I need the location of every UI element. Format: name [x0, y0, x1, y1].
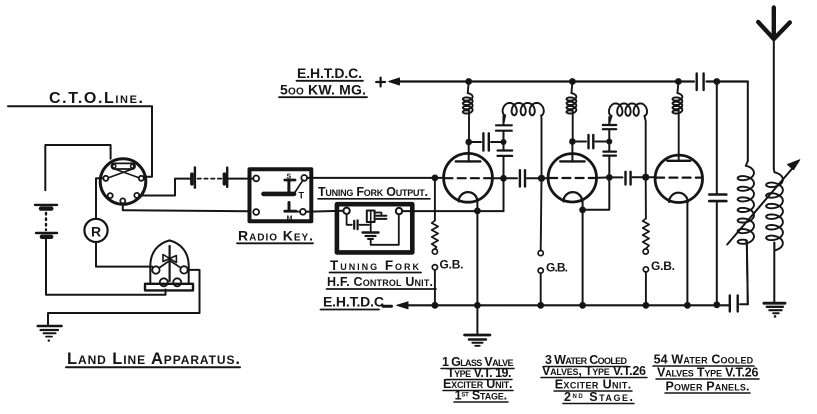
capacitor tank 2 lower plate b — [603, 155, 616, 157]
svg-text:E.H.T.D.C: E.H.T.D.C — [323, 294, 384, 310]
capacitor tank 1 upper plate b — [496, 130, 512, 132]
terminal grid bias 1 upper — [432, 249, 437, 254]
wire grid bias 3 to bus — [645, 272, 647, 305]
radio key lower bar to bottom-right terminal — [296, 211, 300, 213]
node tank 2 output — [606, 174, 613, 181]
wire fork to internal ground — [370, 222, 372, 232]
node bus valve 1 filament — [474, 302, 481, 309]
wire tank 2 left vertical — [608, 117, 610, 177]
capacitor fork unit plate a — [353, 221, 355, 229]
wire line capacitor to radio key — [229, 178, 253, 180]
rotary terminal left — [103, 176, 108, 181]
tuning fork unit box — [337, 204, 412, 252]
rotary terminal bottom-center — [120, 198, 125, 203]
ground left dot — [48, 339, 50, 341]
underline E.H.T.D.C top — [297, 80, 364, 82]
rotary capsule pivot right — [131, 165, 134, 168]
node bus grid bias 2 — [537, 302, 544, 309]
underline EXCITER UNIT 1 — [443, 390, 513, 392]
node valve 3 grid — [642, 174, 649, 181]
wire radio key lower to tuning fork input — [306, 211, 344, 212]
wire main earth stem — [476, 305, 478, 333]
inductor tank coil stage 1 — [503, 103, 544, 178]
tuning fork terminal right — [396, 208, 402, 214]
rotary crossed contact arm 1 — [114, 169, 139, 178]
capacitor output tank plate a — [709, 193, 726, 196]
battery B1 bottom cell long plate — [36, 232, 57, 234]
node tank 1 feed — [501, 139, 507, 145]
tuning fork terminal left — [343, 208, 349, 214]
valve V2 envelope — [548, 154, 596, 202]
ground antenna dot — [774, 315, 777, 318]
svg-text:C.T.O.Line.: C.T.O.Line. — [49, 90, 143, 107]
capacitor grid-anode stage 1 lead — [469, 141, 481, 143]
capacitor coupling stage 2-3 right lead — [633, 176, 646, 178]
wire R meter to sounder left terminal — [96, 242, 152, 267]
radio key lever link to top-right terminal — [295, 180, 304, 193]
wire dashed link between line capacitors — [198, 178, 222, 180]
node tank 2 feed — [606, 139, 612, 145]
valve V2 filament dome — [563, 192, 582, 202]
resistor grid leak stage 1 — [432, 221, 438, 249]
wire valve 2 grid lead right — [596, 176, 609, 179]
valve V3 grid dashed — [656, 177, 701, 179]
underline 1ST STAGE — [454, 401, 508, 403]
svg-text:Valves, Type V.T.26: Valves, Type V.T.26 — [542, 364, 646, 378]
sounder bell body — [150, 240, 188, 283]
svg-text:T: T — [299, 191, 305, 201]
wire tank capacitor branch upper — [716, 82, 718, 195]
capacitor tank 2 upper plate b — [603, 128, 616, 130]
underline 1 GLASS VALVE — [441, 368, 514, 370]
capacitor anode stage 2 plate b — [592, 135, 594, 148]
wire C.T.O. line drop to rotary — [144, 106, 152, 177]
wire tank 2 return to filament — [583, 177, 610, 209]
meter R body — [84, 219, 107, 242]
wire capacitor to fork — [360, 224, 370, 226]
valve V1 grid dashed — [445, 177, 492, 179]
rotary armature capsule — [112, 163, 136, 169]
node bus grid bias 3 — [643, 302, 650, 309]
capacitor coupling stage 2-3 left lead — [609, 176, 622, 178]
capacitor line cap left thick plate — [190, 174, 194, 184]
inductor anode choke stage 3 — [673, 82, 683, 161]
wire tank capacitor branch lower — [716, 202, 718, 305]
capacitor anode stage 1 plate b — [488, 133, 490, 150]
wire antenna coil to ground — [773, 243, 775, 303]
node bus valve 3 filament — [684, 302, 691, 309]
node top bus stage 3 — [675, 78, 682, 85]
underline POWER PANELS — [665, 392, 750, 394]
rotary terminal right — [139, 176, 144, 181]
rotary terminal bottom-left — [108, 193, 113, 198]
valve V3 filament dome — [669, 193, 688, 202]
capacitor bus series plate a — [737, 295, 739, 311]
capacitor coupling stage 1-2 plate a — [519, 170, 521, 186]
capacitor top bus series plate a — [696, 74, 698, 91]
capacitor fork unit plate b — [357, 220, 359, 229]
svg-text:H.F. Control Unit.: H.F. Control Unit. — [327, 275, 433, 289]
battery B1 top cell long plate — [35, 204, 57, 206]
minus polarity dash — [383, 305, 392, 308]
ground left bar 2 — [41, 329, 59, 331]
wire valve 2 filament stem — [582, 202, 584, 306]
radio key lever — [264, 192, 295, 197]
underline LAND LINE APPARATUS — [66, 366, 240, 368]
wire grid bias 2 drop — [540, 178, 543, 250]
wire grid leak 1 drop — [434, 178, 436, 221]
sounder stem — [169, 246, 171, 281]
underline RADIO KEY — [237, 242, 313, 244]
ground main bar 2 — [469, 338, 486, 340]
rotary crossed contact arm 2 — [109, 169, 134, 178]
wire tuning fork output line — [402, 210, 503, 212]
svg-text:Tuning Fork: Tuning Fork — [330, 258, 420, 273]
wire grid bias 2 to bus — [540, 273, 542, 305]
capacitor line cap right tall plate — [226, 168, 228, 187]
svg-text:Valves Type V.T.26: Valves Type V.T.26 — [657, 366, 759, 380]
wire rotary bottom-center to key lower line — [123, 203, 249, 211]
inductor anode choke stage 1 — [463, 82, 473, 143]
terminal grid bias 3 lower — [643, 267, 648, 272]
ground antenna bar 1 — [764, 302, 785, 305]
terminal grid bias 2 upper — [538, 251, 543, 256]
wire top E.H.T. bus left of capacitor — [398, 80, 694, 82]
capacitor anode stage 2 lead — [572, 141, 586, 143]
wire fork unit internal return — [371, 215, 399, 245]
wire battery to sounder base — [46, 239, 166, 295]
terminal grid bias 3 upper — [643, 249, 648, 254]
wire sounder right terminal down to return line — [188, 270, 200, 313]
node bus grid bias 1 — [432, 302, 439, 309]
rotary capsule pivot left — [113, 165, 116, 168]
ground antenna bar 4 — [773, 312, 779, 314]
node valve 1 grid leak branch — [432, 175, 439, 182]
capacitor line cap left tall plate — [194, 167, 196, 187]
capacitor tank 1 lower plate b — [498, 155, 513, 157]
radio key terminal bottom-left — [253, 209, 259, 215]
underline TUNING FORK OUTPUT — [318, 198, 430, 200]
node valve 2 anode branch — [569, 138, 576, 145]
svg-text:G.B.: G.B. — [546, 261, 568, 275]
capacitor anode stage 1 right lead — [491, 141, 504, 143]
underline VALVES TYPE VT26 — [541, 377, 647, 379]
wire fork terminal to capacitor — [347, 214, 352, 225]
terminal grid bias 2 lower — [538, 268, 543, 273]
capacitor line cap right thick plate — [223, 174, 227, 184]
svg-text:Tuning Fork Output.: Tuning Fork Output. — [318, 185, 428, 199]
node tank 1 output — [500, 175, 507, 182]
wire battery feed from rotary top — [45, 145, 110, 190]
svg-text:Radio Key.: Radio Key. — [238, 228, 313, 244]
radio key upper contact stem — [287, 181, 290, 192]
svg-text:E.H.T.D.C.: E.H.T.D.C. — [297, 65, 362, 81]
wire bottom E.H.T. bus — [407, 304, 730, 306]
wire grid bias 1 to bus — [434, 270, 436, 305]
capacitor top bus series plate b — [702, 74, 704, 91]
wire output coil bottom to bus capacitor — [740, 241, 748, 305]
ground fork unit bar 2 — [366, 235, 376, 237]
valve V2 grid dashed — [549, 177, 595, 179]
wire C.T.O. line horizontal — [8, 105, 152, 107]
ground main bar 3 — [472, 342, 482, 344]
ground fork unit bar 3 — [368, 238, 373, 240]
underline E.H.T.D.C bottom — [321, 309, 380, 311]
underline 500 KW MG — [279, 96, 367, 98]
wire earth return line — [48, 313, 200, 325]
underline H.F. CONTROL UNIT — [327, 288, 437, 290]
ground left bar 4 — [46, 336, 52, 338]
node bus tank capacitor — [713, 301, 720, 308]
ground left bar 3 — [44, 332, 56, 334]
radio key upper contact bar S — [285, 179, 295, 182]
bottom E.H.T. bus arrowhead — [397, 302, 408, 309]
rotary terminal bottom-right — [134, 193, 139, 198]
wire valve 3 grid lead left — [646, 176, 656, 178]
valve V1 filament dome — [459, 192, 478, 202]
wire antenna lead — [773, 39, 775, 169]
underline VALVES TYPE VT26 POWER — [656, 378, 759, 380]
radio key terminal top-left — [253, 176, 259, 182]
wire fork cap lead — [375, 213, 382, 216]
capacitor tank 2 upper plate a — [603, 124, 616, 126]
inductor tank coil stage 2 — [609, 103, 647, 177]
wire rotary bottom-right to line capacitor — [139, 179, 190, 196]
wire valve 2 grid lead left — [542, 177, 550, 179]
capacitor coupling stage 1-2 right lead — [527, 177, 542, 179]
ground antenna bar 2 — [767, 306, 783, 308]
svg-text:G.B.: G.B. — [440, 258, 464, 272]
inductor antenna coil — [766, 169, 783, 250]
sounder arm left — [159, 261, 170, 269]
capacitor anode stage 2 plate a — [587, 135, 589, 148]
capacitor coupling stage 1-2 plate b — [524, 170, 526, 186]
svg-text:S: S — [286, 174, 291, 181]
wire top E.H.T. bus right of capacitor — [707, 80, 748, 82]
svg-text:2nd Stage.: 2nd Stage. — [564, 390, 633, 404]
wire choke to valve 1 anode — [468, 142, 470, 161]
wire radio key to valve 1 grid line — [307, 177, 435, 179]
ground fork unit bar 1 — [363, 231, 379, 233]
capacitor coupling stage 1-2 left lead — [504, 177, 518, 179]
wire rotary left terminal to R meter — [96, 178, 103, 219]
wire valve 3 filament stem — [686, 202, 688, 305]
capacitor tank 1 upper plate a — [496, 124, 512, 126]
ground main bar 1 — [465, 334, 490, 337]
capacitor bus series plate b — [729, 295, 731, 311]
radio key terminal top-right — [301, 175, 307, 181]
capacitor fork unit top plate a — [376, 215, 386, 217]
node valve 2 grid — [538, 175, 545, 182]
wire choke to valve 2 anode — [571, 142, 573, 162]
valve V1 envelope — [444, 153, 493, 202]
svg-text:R: R — [91, 224, 101, 240]
radio key terminal bottom-right — [300, 209, 306, 215]
valve V3 anode bar — [667, 160, 690, 162]
underline TYPE V.T. 19 — [446, 379, 512, 381]
sounder terminal left — [152, 266, 159, 273]
svg-text:Power Panels.: Power Panels. — [666, 380, 750, 394]
top E.H.T. bus arrowhead — [389, 78, 400, 85]
wire top bus corner to output coil — [747, 82, 749, 162]
sounder arm right — [170, 261, 181, 268]
capacitor output tank plate b — [709, 200, 726, 203]
underline TUNING FORK — [330, 272, 422, 274]
svg-text:5oo KW. MG.: 5oo KW. MG. — [280, 82, 366, 98]
node bus valve 2 filament — [579, 302, 586, 309]
sounder contact a — [160, 278, 168, 286]
underline 2ND STAGE — [563, 403, 634, 405]
underline 54 WATER COOLED — [653, 365, 754, 367]
sounder vane right — [170, 256, 177, 263]
svg-text:G.B.: G.B. — [651, 259, 675, 273]
radio key lower contact stem — [288, 203, 291, 211]
arrowhead variometer — [788, 160, 800, 170]
plus polarity mark — [376, 78, 385, 87]
wire grid leak 3 drop — [645, 177, 647, 218]
inductor output coil — [738, 161, 754, 304]
radio key lower contact bar M — [285, 210, 296, 213]
inductor anode choke stage 2 — [567, 82, 577, 142]
svg-text:54 Water Cooled: 54 Water Cooled — [654, 353, 754, 367]
node valve 1 filament junction — [474, 208, 481, 215]
node valve 1 anode branch — [465, 139, 472, 146]
resistor grid leak stage 3 — [643, 219, 649, 249]
valve V2 anode bar — [560, 160, 584, 162]
svg-text:1st Stage.: 1st Stage. — [455, 389, 508, 403]
capacitor fork unit top plate b — [376, 218, 386, 220]
capacitor tank 2 lower plate a — [603, 151, 616, 153]
antenna symbol — [758, 8, 790, 40]
wire tank 1 left vertical — [503, 116, 505, 211]
node top bus stage 2 — [569, 78, 576, 85]
radio key box — [250, 169, 312, 221]
underline EXCITER UNIT 2 — [554, 390, 632, 392]
sounder terminal right — [180, 266, 187, 273]
capacitor tank 1 lower plate a — [498, 149, 513, 151]
tuning fork element — [367, 211, 375, 223]
battery B1 top cell short plate — [41, 206, 51, 210]
tuning fork element inner prong — [370, 212, 372, 221]
battery B1 dotted cells — [45, 213, 47, 230]
arrow variometer adjustment — [727, 166, 795, 245]
capacitor anode stage 2 right lead — [596, 141, 610, 143]
wire valve 1 filament stem — [476, 202, 478, 306]
capacitor coupling stage 2-3 plate a — [624, 172, 626, 185]
sounder vane left — [163, 255, 170, 262]
sounder contact b — [173, 278, 181, 286]
svg-text:M: M — [287, 216, 293, 223]
ground main bar 4 — [475, 345, 480, 347]
underline 3 WATER COOLED — [544, 366, 628, 368]
node top bus tank branch — [713, 78, 720, 85]
svg-text:Land Line Apparatus.: Land Line Apparatus. — [67, 350, 240, 368]
valve V3 envelope — [655, 155, 702, 202]
battery B1 bottom cell short plate — [42, 235, 51, 239]
valve V1 anode bar — [456, 160, 481, 162]
wire valve 1 grid lead right — [492, 177, 500, 179]
ground antenna bar 3 — [769, 309, 781, 311]
capacitor anode stage 1 plate a — [482, 133, 484, 150]
wire valve 1 grid lead left — [435, 177, 444, 179]
ground left bar 1 — [38, 325, 62, 328]
terminal grid bias 1 lower — [432, 265, 437, 270]
node valve 2 filament junction — [579, 207, 586, 214]
rotary line switch body — [100, 159, 146, 205]
sounder base bar — [145, 284, 193, 291]
node top bus stage 1 — [465, 78, 472, 85]
capacitor coupling stage 2-3 plate b — [629, 172, 631, 185]
